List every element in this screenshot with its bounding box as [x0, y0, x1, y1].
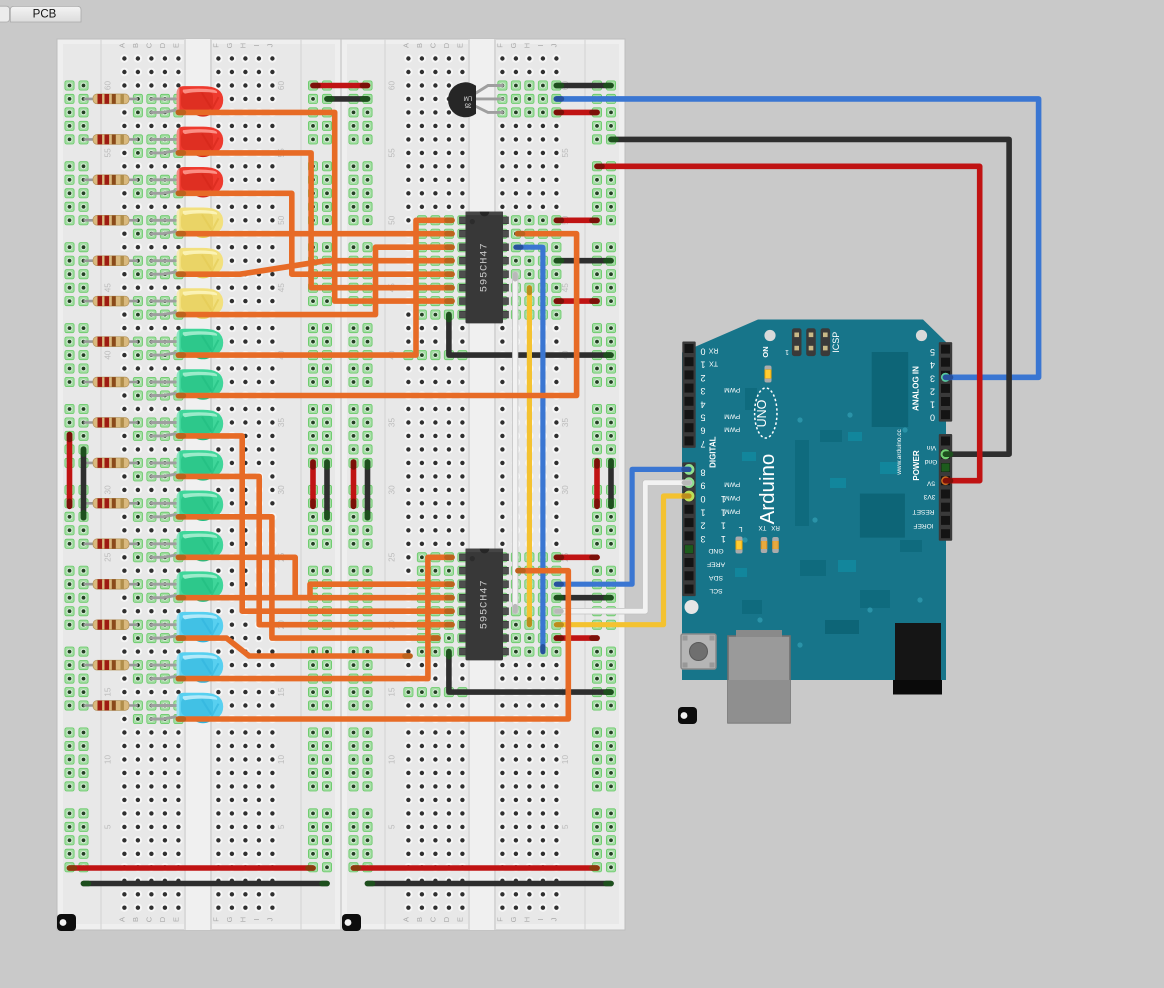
svg-text:B: B — [415, 917, 424, 922]
svg-text:UNO: UNO — [755, 399, 769, 427]
svg-text:A: A — [117, 43, 126, 48]
svg-text:5: 5 — [700, 413, 705, 423]
mounting clip 1 — [57, 914, 76, 931]
svg-text:ICSP: ICSP — [831, 332, 841, 353]
svg-text:595CH47: 595CH47 — [479, 243, 491, 293]
svg-text:5: 5 — [277, 824, 286, 829]
tab PCB — [10, 6, 81, 22]
svg-text:D: D — [442, 916, 451, 922]
wire black jumper U2 — [556, 595, 611, 601]
sensor U3 LM35 (TO-92) — [448, 82, 502, 117]
IC U1 74HC595 shift register — [460, 212, 509, 324]
wire red jumper U1 bottom — [556, 298, 597, 304]
wire black rail jumper BB2 left — [365, 462, 371, 518]
svg-text:30: 30 — [104, 485, 113, 495]
svg-text:J: J — [549, 43, 558, 47]
svg-text:3: 3 — [700, 534, 705, 544]
svg-text:H: H — [522, 917, 531, 922]
svg-text:0: 0 — [700, 494, 705, 504]
LED LED14 (cyan) — [151, 612, 223, 643]
wire yellow pin10 — [556, 496, 689, 625]
onboard LEDs (ON, L, TX, RX) — [736, 366, 779, 554]
svg-text:30: 30 — [561, 485, 570, 495]
svg-text:C: C — [144, 916, 153, 922]
svg-text:RESET: RESET — [913, 508, 935, 515]
svg-text:GND: GND — [708, 547, 723, 554]
wire black bottom BB2 — [368, 881, 612, 887]
svg-text:RX: RX — [708, 347, 718, 354]
svg-text:35: 35 — [388, 418, 397, 428]
LED LED7 (green) — [151, 329, 223, 360]
svg-text:IOREF: IOREF — [913, 522, 933, 529]
svg-text:15: 15 — [388, 687, 397, 697]
svg-text:I: I — [252, 44, 261, 46]
svg-text:1: 1 — [700, 360, 705, 370]
header digital 0-7 — [682, 342, 695, 448]
svg-text:B: B — [415, 43, 424, 48]
reset button — [681, 634, 716, 669]
svg-text:3V3: 3V3 — [923, 493, 935, 500]
wire red bottom BB1 — [70, 865, 314, 871]
svg-text:60: 60 — [104, 81, 113, 91]
svg-text:5: 5 — [104, 824, 113, 829]
svg-text:1: 1 — [785, 348, 789, 355]
wire red rail jumper BB1 right — [310, 462, 316, 506]
svg-text:Vin: Vin — [926, 444, 936, 451]
LED LED9 (green) — [151, 410, 223, 441]
svg-text:I: I — [536, 44, 545, 46]
svg-text:E: E — [171, 43, 180, 48]
wire black bottom BB1 — [84, 881, 328, 887]
svg-text:10: 10 — [388, 755, 397, 765]
svg-text:1: 1 — [721, 521, 726, 531]
svg-text:45: 45 — [104, 283, 113, 293]
header analog in — [939, 342, 952, 422]
svg-text:5V: 5V — [926, 480, 935, 487]
USB connector — [728, 630, 790, 723]
wire black rail-Gnd — [611, 139, 1009, 454]
resistor R5 220 ohm — [84, 256, 138, 266]
svg-text:DIGITAL: DIGITAL — [708, 436, 717, 468]
svg-text:60: 60 — [388, 81, 397, 91]
svg-text:L: L — [739, 525, 743, 532]
wire white U1-U2 — [512, 274, 518, 611]
svg-text:5: 5 — [388, 824, 397, 829]
svg-text:15: 15 — [277, 687, 286, 697]
resistor R15 220 ohm — [84, 660, 138, 670]
LED LED1 (red) — [151, 86, 223, 117]
svg-text:J: J — [549, 917, 558, 921]
wire black U2 gnd — [449, 652, 611, 693]
wire W1 orange LED1-U1 — [178, 112, 452, 301]
wire black link BB1-BB2 — [327, 96, 368, 102]
resistor R2 220 ohm — [84, 135, 138, 145]
svg-text:25: 25 — [104, 552, 113, 562]
LED LED5 (yellow) — [151, 248, 223, 279]
svg-text:SCL: SCL — [709, 587, 722, 594]
svg-text:F: F — [211, 43, 220, 48]
breadboard BB1 — [57, 39, 341, 930]
wire W9 orange LED9-U2 — [178, 436, 452, 611]
LED LED13 (green) — [151, 571, 223, 602]
svg-text:40: 40 — [104, 350, 113, 360]
svg-text:B: B — [131, 43, 140, 48]
svg-text:25: 25 — [388, 552, 397, 562]
svg-text:35: 35 — [561, 418, 570, 428]
svg-text:0: 0 — [700, 347, 705, 357]
resistor R9 220 ohm — [84, 418, 138, 428]
wire black U1 gnd — [449, 315, 611, 356]
tab bar partial left tab — [0, 6, 10, 22]
svg-text:I: I — [536, 918, 545, 920]
svg-text:LM: LM — [464, 94, 472, 100]
svg-text:55: 55 — [104, 148, 113, 158]
svg-text:G: G — [509, 916, 518, 922]
svg-text:5: 5 — [930, 347, 935, 357]
wire W6 orange LED6-U1 — [178, 247, 452, 314]
svg-text:1: 1 — [721, 534, 726, 544]
wire W10 orange LED10-U2 — [178, 476, 452, 624]
svg-text:55: 55 — [388, 148, 397, 158]
wire red link BB1-BB2 — [313, 83, 368, 89]
svg-text:PWM: PWM — [724, 413, 740, 420]
LED LED2 (red) — [151, 127, 223, 158]
wire red bottom BB2 — [354, 865, 598, 871]
svg-text:SDA: SDA — [709, 574, 723, 581]
wire W13 orange LED13-U2 — [178, 584, 452, 598]
svg-text:2: 2 — [930, 386, 935, 396]
svg-text:C: C — [428, 916, 437, 922]
header digital 8-SCL — [682, 462, 695, 596]
LED LED3 (red) — [151, 167, 223, 198]
svg-text:595CH47: 595CH47 — [479, 580, 491, 630]
svg-text:C: C — [144, 42, 153, 48]
svg-text:6: 6 — [700, 426, 705, 436]
svg-text:PWM: PWM — [724, 426, 740, 433]
breadboard BB2 — [341, 39, 625, 930]
wire red jumper U1 top — [556, 218, 597, 224]
wire red rail jumper BB2 left — [351, 462, 357, 506]
svg-text:15: 15 — [104, 687, 113, 697]
svg-text:3: 3 — [700, 386, 705, 396]
resistor R1 220 ohm — [84, 94, 138, 104]
svg-text:H: H — [238, 917, 247, 922]
resistor R11 220 ohm — [84, 498, 138, 508]
svg-text:5: 5 — [561, 824, 570, 829]
wire W5 orange LED5-U1 — [178, 261, 452, 275]
mounting clip 3 — [678, 707, 697, 724]
svg-text:H: H — [522, 43, 531, 48]
LED LED8 (green) — [151, 369, 223, 400]
svg-text:G: G — [509, 42, 518, 48]
svg-text:H: H — [238, 43, 247, 48]
svg-text:30: 30 — [277, 485, 286, 495]
svg-text:2: 2 — [700, 521, 705, 531]
svg-text:E: E — [455, 917, 464, 922]
resistor R12 220 ohm — [84, 539, 138, 549]
wire W7 orange LED7-U1 — [178, 220, 452, 355]
wire W8 orange LED8-U1 — [178, 234, 576, 396]
svg-text:PWM: PWM — [724, 386, 740, 393]
svg-text:www.arduino.cc: www.arduino.cc — [896, 428, 903, 475]
svg-text:50: 50 — [277, 215, 286, 225]
LED LED12 (green) — [151, 531, 223, 562]
svg-text:Arduino: Arduino — [756, 454, 779, 525]
svg-text:45: 45 — [277, 283, 286, 293]
svg-text:G: G — [225, 42, 234, 48]
LED LED15 (cyan) — [151, 652, 223, 683]
svg-text:1: 1 — [700, 507, 705, 517]
wire W3 orange LED3-U1 — [178, 193, 452, 274]
svg-text:30: 30 — [388, 485, 397, 495]
LED LED16 (cyan) — [151, 693, 223, 724]
svg-text:4: 4 — [700, 399, 705, 409]
header power — [939, 434, 952, 541]
connected holes highlights BB2 — [404, 81, 561, 697]
resistor R4 220 ohm — [84, 215, 138, 225]
wire W11 orange LED11-U2 — [178, 517, 438, 638]
LED LED11 (green) — [151, 491, 223, 522]
wire W14 orange LED14-U2 — [178, 638, 410, 656]
svg-text:E: E — [171, 917, 180, 922]
svg-text:7: 7 — [700, 439, 705, 449]
svg-text:B: B — [131, 917, 140, 922]
wire red LM35 5V — [556, 110, 597, 116]
wire black rail jumper BB1 right — [324, 462, 330, 518]
pin connection highlights — [684, 373, 951, 554]
wire yellow U1-U2 — [527, 288, 532, 625]
svg-text:PWM: PWM — [724, 494, 740, 501]
resistor R8 220 ohm — [84, 377, 138, 387]
wire blue LM35-A3 — [556, 99, 1038, 377]
wire red rail jumper BB1 left — [67, 435, 73, 507]
resistor R10 220 ohm — [84, 458, 138, 468]
wire black LM35 gnd — [556, 83, 611, 89]
svg-text:35: 35 — [277, 418, 286, 428]
svg-text:A: A — [401, 917, 410, 922]
svg-text:9: 9 — [700, 481, 705, 491]
svg-text:1: 1 — [930, 400, 935, 410]
svg-text:F: F — [211, 917, 220, 922]
svg-text:G: G — [225, 916, 234, 922]
svg-text:TX: TX — [709, 360, 718, 367]
svg-text:10: 10 — [277, 755, 286, 765]
svg-text:10: 10 — [561, 755, 570, 765]
wire W4 orange LED4-U1 — [178, 231, 452, 237]
svg-text:POWER: POWER — [912, 450, 921, 480]
Arduino UNO board — [682, 320, 946, 681]
wire blue U1-U2 — [516, 247, 543, 651]
svg-text:RX: RX — [771, 524, 780, 531]
svg-text:PWM: PWM — [724, 481, 740, 488]
svg-text:10: 10 — [104, 755, 113, 765]
svg-text:3: 3 — [930, 373, 935, 383]
svg-text:A: A — [401, 43, 410, 48]
svg-text:55: 55 — [561, 148, 570, 158]
LED LED10 (green) — [151, 450, 223, 481]
resistor R13 220 ohm — [84, 579, 138, 589]
svg-text:50: 50 — [388, 215, 397, 225]
IC U2 74HC595 shift register — [460, 549, 509, 661]
resistor R16 220 ohm — [84, 701, 138, 711]
svg-text:F: F — [495, 43, 504, 48]
svg-text:0: 0 — [930, 413, 935, 423]
svg-text:Gnd: Gnd — [924, 458, 937, 465]
resistor R14 220 ohm — [84, 620, 138, 630]
svg-text:60: 60 — [277, 81, 286, 91]
wire W12 orange LED12-U2 — [178, 557, 452, 597]
svg-text:TX: TX — [758, 524, 766, 531]
svg-text:D: D — [158, 916, 167, 922]
wire W16 orange LED16-U2 — [178, 571, 568, 719]
svg-text:D: D — [442, 42, 451, 48]
LED LED4 (yellow) — [151, 208, 223, 239]
svg-text:2: 2 — [700, 373, 705, 383]
mounting clip 2 — [342, 914, 361, 931]
wire red rail jumper BB2 right — [594, 461, 600, 506]
resistor R6 220 ohm — [84, 296, 138, 306]
svg-text:J: J — [265, 43, 274, 47]
svg-text:45: 45 — [561, 283, 570, 293]
svg-text:I: I — [252, 918, 261, 920]
resistor R3 220 ohm — [84, 175, 138, 185]
wire black rail jumper BB2 right — [608, 461, 614, 506]
svg-text:PWM: PWM — [724, 507, 740, 514]
svg-text:8: 8 — [700, 467, 705, 477]
svg-text:E: E — [455, 43, 464, 48]
resistor R7 220 ohm — [84, 337, 138, 347]
connected holes highlights BB1 — [133, 94, 183, 723]
svg-text:A: A — [117, 917, 126, 922]
wire white pin9 — [556, 483, 689, 612]
svg-text:PCB: PCB — [33, 9, 57, 21]
wire W15 orange LED15-U2 — [178, 557, 452, 678]
svg-text:35: 35 — [464, 102, 471, 108]
ICSP header — [792, 328, 830, 356]
wire black rail jumper BB1 left — [81, 449, 87, 518]
svg-text:ON: ON — [761, 346, 770, 357]
wire red jumper U2 bottom — [556, 635, 597, 641]
wire black jumper U1 — [556, 258, 611, 264]
Arduino silkscreen — [700, 332, 937, 594]
wire red rail-5V — [597, 166, 980, 480]
svg-text:4: 4 — [930, 360, 935, 370]
barrel jack power connector — [893, 623, 942, 695]
wire blue pin8 — [556, 469, 689, 584]
LED LED6 (yellow) — [151, 288, 223, 319]
svg-text:D: D — [158, 42, 167, 48]
wire red jumper U2 top — [556, 554, 597, 560]
svg-text:C: C — [428, 42, 437, 48]
svg-text:AREF: AREF — [707, 561, 725, 568]
svg-text:ANALOG IN: ANALOG IN — [912, 366, 921, 411]
svg-text:F: F — [495, 917, 504, 922]
svg-text:J: J — [265, 917, 274, 921]
wire W2 orange LED2-U1 — [178, 153, 452, 288]
